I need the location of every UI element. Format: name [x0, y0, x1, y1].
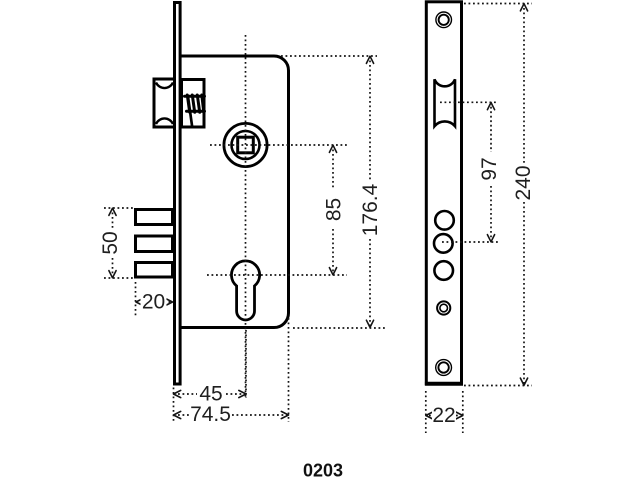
mid screw hole inner	[440, 304, 448, 312]
arrow dim45 right	[239, 390, 246, 397]
latch centerline right view	[440, 101, 498, 103]
top screw hole outer	[436, 12, 452, 28]
label 20	[141, 291, 167, 314]
latch bolt	[154, 79, 175, 127]
svg-text:22: 22	[432, 404, 455, 427]
arrow dim176.4 down	[366, 320, 373, 327]
dim 50 extension bottom	[104, 277, 133, 279]
dim 45/74.5 left extension	[173, 388, 175, 424]
arrow dim85 down	[329, 268, 336, 275]
arrow dim20 left	[136, 298, 143, 305]
dim 22 line	[429, 415, 460, 417]
bolt hole 2	[434, 234, 453, 253]
deadbolt prong 3	[136, 263, 173, 278]
label 45	[198, 383, 224, 406]
dim 50 extension top	[104, 207, 133, 209]
arrow dim74.5 left	[174, 411, 181, 418]
dim 74.5 right extension	[288, 318, 290, 422]
arrow dim74.5 right	[281, 411, 288, 418]
latch bolt face arcs	[156, 83, 173, 125]
label 176.4	[359, 183, 382, 237]
spindle hub outer circle	[224, 123, 267, 166]
cylinder horizontal centerline	[207, 274, 347, 276]
svg-text:85: 85	[323, 198, 346, 221]
dim 97 line	[490, 102, 492, 242]
arrow dim85 up	[329, 145, 336, 152]
dim 176.4 line	[369, 56, 371, 328]
latch spring	[185, 95, 205, 126]
arrow dim50 down	[109, 271, 116, 278]
svg-text:240: 240	[512, 165, 535, 200]
bottom screw hole inner	[438, 362, 448, 372]
label 240	[512, 164, 535, 202]
lock body outline	[181, 56, 289, 328]
arrow dim240 up	[520, 4, 527, 11]
plate bottom thick edge	[425, 382, 463, 386]
faceplate side view	[175, 3, 181, 385]
dim 240 line	[523, 4, 525, 386]
arrow dim22 left	[426, 412, 433, 419]
arrow dim20 right	[165, 298, 172, 305]
dim 240 bottom extension	[464, 385, 532, 387]
arrow dim176.4 up	[366, 56, 373, 63]
dim 50 line	[112, 208, 114, 278]
arrow dim97 up	[487, 103, 494, 110]
label 22	[432, 404, 456, 427]
spindle vertical centerline	[245, 35, 247, 398]
dim 240 top extension	[464, 3, 532, 5]
dim 45 line	[174, 393, 247, 395]
svg-text:176.4: 176.4	[359, 183, 382, 236]
arrow dim50 up	[109, 208, 116, 215]
arrow dim240 down	[520, 378, 527, 385]
dim 22 right extension	[462, 391, 464, 433]
cylinder centerline lower extension	[245, 330, 247, 398]
svg-text:50: 50	[99, 231, 122, 254]
dim 176.4 bottom extension	[293, 327, 385, 329]
svg-text:0203: 0203	[303, 460, 343, 480]
spindle square	[238, 137, 254, 153]
bolt hole 1	[435, 211, 454, 230]
deadbolt prong 2	[136, 236, 173, 252]
dim 74.5 line	[174, 414, 289, 416]
top screw hole inner	[439, 15, 449, 25]
strike plate front view	[426, 2, 461, 384]
dim 85 line	[332, 145, 334, 275]
dim 22 left extension	[425, 391, 427, 433]
label 74.5	[190, 403, 231, 426]
hole centerline right view	[442, 241, 498, 243]
arrow dim22 right	[456, 412, 463, 419]
svg-text:20: 20	[142, 291, 165, 314]
spring housing	[182, 80, 205, 128]
arrow dim97 down	[487, 235, 494, 242]
label 50	[99, 229, 122, 257]
arrow dim45 left	[174, 390, 181, 397]
mid screw hole outer	[437, 301, 450, 314]
dim 20 extension	[135, 282, 137, 317]
svg-text:97: 97	[478, 157, 501, 180]
euro cylinder hole	[231, 261, 259, 320]
dim 20 line	[136, 301, 172, 303]
spindle horizontal centerline	[210, 144, 347, 146]
label 97	[478, 155, 501, 183]
dim 176.4 top extension	[281, 55, 377, 57]
spindle hub inner circle	[232, 131, 260, 159]
bottom screw hole outer	[436, 360, 452, 376]
latch opening	[435, 79, 456, 126]
label 85	[323, 196, 346, 224]
deadbolt prong 1	[136, 210, 173, 225]
bolt hole 3	[434, 261, 453, 280]
svg-text:74.5: 74.5	[190, 403, 231, 426]
